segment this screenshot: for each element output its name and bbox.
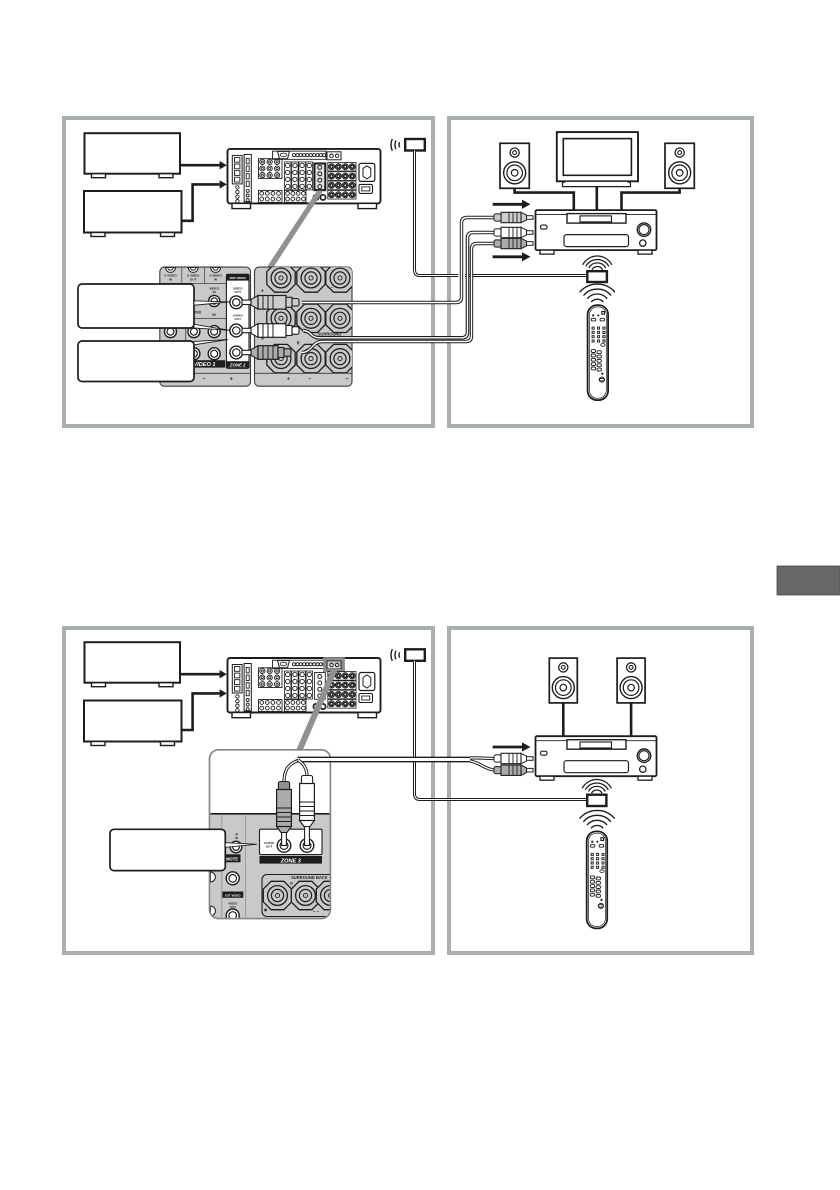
jack panel right section (speaker terminals) — [255, 267, 353, 386]
svg-text:– –: – – — [313, 909, 320, 914]
ZONE 2 tag — [226, 361, 249, 368]
zone 3 white strip — [260, 829, 323, 854]
receiver rear panel (zone 3 highlighted) — [228, 658, 381, 713]
leader C to IR IN jack — [225, 843, 256, 848]
IR repeater — [405, 139, 425, 151]
receiver front (zone 3) — [536, 736, 657, 776]
svg-text:–: – — [308, 376, 311, 382]
IR repeater 2 cable — [415, 661, 587, 800]
zone 3 panel gray area — [210, 814, 329, 918]
zone 3 callout box — [210, 750, 331, 919]
ZONE 3 tag — [260, 856, 323, 864]
video out jack 2 — [226, 909, 239, 922]
IR repeater cable — [415, 151, 459, 276]
IR blaster box 2 — [587, 795, 606, 806]
svg-text:+: + — [261, 289, 264, 295]
svg-text:SURROUND BACK: SURROUND BACK — [291, 875, 328, 880]
svg-text:+: + — [230, 376, 233, 382]
label box B (blank) — [78, 341, 194, 382]
REMOTE tag — [219, 854, 241, 862]
IR repeater 2 — [405, 649, 425, 661]
zone3 audio jack L — [277, 839, 291, 853]
zone3 gray plug (down) — [278, 782, 289, 792]
IR blaster box — [587, 271, 607, 282]
audio out jack L — [230, 324, 243, 337]
audio R plug 2 (gray) — [527, 768, 534, 772]
svg-text:+: + — [287, 376, 290, 382]
ext video jack — [226, 872, 239, 885]
audio cable into box4 splits — [470, 756, 495, 760]
svg-text:2ND VIDEO: 2ND VIDEO — [230, 276, 247, 280]
2ND VIDEO tag — [226, 274, 249, 280]
label box A (blank) — [78, 284, 194, 328]
audio in jack col1 — [165, 326, 177, 338]
audio L plug into receiver (white) — [527, 231, 534, 235]
video in jack — [209, 295, 220, 306]
IR blaster waves small — [592, 267, 603, 270]
arrow from device 1 to receiver — [180, 164, 221, 167]
arrow from device 3 to receiver — [180, 673, 221, 676]
svg-text:EXT VIDEO: EXT VIDEO — [225, 893, 241, 897]
left edge half jacks — [210, 872, 215, 882]
panel frame top-right — [449, 118, 752, 426]
input arrow top — [493, 203, 524, 206]
television — [557, 132, 638, 181]
audio L plug 2 (white) — [527, 757, 534, 761]
input arrow bottom — [493, 255, 524, 258]
video cable run — [302, 218, 496, 303]
remote waves 2 — [591, 825, 603, 828]
audio R plug into receiver (gray) — [527, 242, 534, 246]
IR blaster waves small 2 — [592, 790, 603, 793]
IR IN jack — [230, 841, 242, 853]
svg-text:OUT: OUT — [190, 277, 197, 281]
svg-text:– –: – – — [327, 285, 334, 290]
IR repeater waves — [398, 142, 401, 147]
svg-text:OUT: OUT — [234, 317, 241, 321]
component device 3 (blank) — [85, 642, 181, 683]
svg-text:ZONE 3: ZONE 3 — [280, 858, 302, 864]
receiver front (zone 2) — [536, 210, 657, 250]
left speaker 2 — [549, 658, 577, 703]
zoom beam — [267, 191, 324, 268]
svg-text:R: R — [290, 882, 293, 886]
svg-text:ZONE 2: ZONE 2 — [229, 363, 246, 368]
surround back terminal sub-panel — [262, 875, 338, 917]
remote waves — [591, 299, 603, 302]
leader A to video out jack — [194, 301, 230, 305]
zone3 cable branch to gray plug — [284, 760, 299, 783]
zone3 white plug (down) — [301, 776, 312, 786]
panel bottom separator — [160, 372, 251, 374]
video out jack — [230, 296, 243, 309]
leader A to audio out L jack — [194, 324, 230, 330]
zone3 audio jack R — [300, 839, 314, 853]
audio L RCA plug at panel (white) — [242, 328, 251, 332]
jack panel left section — [160, 267, 251, 386]
audio R cable run — [302, 244, 496, 353]
zone3 audio cable pair — [298, 757, 474, 763]
EXT VIDEO tag — [222, 892, 243, 898]
svg-text:–: – — [345, 376, 348, 382]
audio R RCA plug at panel (gray) — [242, 350, 251, 354]
svg-text:R: R — [297, 341, 300, 346]
svg-text:OUT: OUT — [266, 845, 273, 849]
left speaker wire — [515, 188, 574, 210]
video plug into receiver — [527, 216, 534, 220]
zone3 speaker terminals — [263, 881, 291, 909]
audio in jack R col3 — [208, 326, 220, 338]
video RCA plug at panel — [242, 300, 251, 304]
clipped jacks at panel top — [166, 267, 221, 272]
panel group dividers — [160, 282, 226, 284]
remote control — [588, 305, 609, 400]
svg-text:OUT: OUT — [234, 290, 241, 294]
label box C (blank) — [110, 829, 225, 870]
audio L cable run — [303, 233, 496, 338]
remote control 2 — [587, 831, 608, 928]
svg-text:IN: IN — [235, 836, 238, 840]
leader B to audio out R jack — [194, 340, 228, 345]
component device 2 (blank) — [84, 191, 182, 233]
zoom beam 2 — [296, 671, 337, 750]
panel frame bottom-right — [449, 628, 752, 953]
right speaker — [665, 143, 694, 188]
svg-text:SURROUND: SURROUND — [318, 332, 342, 337]
left speaker — [500, 143, 529, 188]
page edge tab — [777, 566, 840, 595]
arrow wire from device 4 to receiver — [181, 693, 220, 730]
right speaker 2 — [617, 658, 645, 703]
arrow wire from device 2 to receiver — [181, 184, 220, 220]
audio in jack row2 — [208, 348, 220, 360]
TV wire — [595, 187, 598, 210]
svg-text:VIDEO 1: VIDEO 1 — [193, 362, 215, 368]
IR repeater 2 waves — [398, 652, 401, 657]
audio in jack L — [188, 326, 200, 338]
VIDEO 1 tag — [183, 360, 225, 367]
input arrow 2 — [493, 746, 524, 749]
panel column separators — [221, 814, 223, 918]
S-video column separators — [181, 268, 183, 284]
component device 4 (blank) — [84, 701, 182, 742]
speaker wires 2 — [562, 703, 565, 736]
zone3 cable branch to white plug — [298, 760, 307, 776]
audio out jack R — [230, 346, 243, 359]
right speaker wire — [622, 188, 680, 210]
svg-text:–: – — [202, 376, 205, 382]
panel frame top-left — [64, 118, 433, 426]
receiver rear panel (zone 2 highlighted) — [228, 149, 381, 204]
component device 1 (blank) — [85, 133, 181, 174]
panel frame bottom-left — [64, 628, 433, 953]
svg-text:MOTE: MOTE — [226, 857, 238, 862]
2ND VIDEO white strip — [226, 274, 249, 368]
